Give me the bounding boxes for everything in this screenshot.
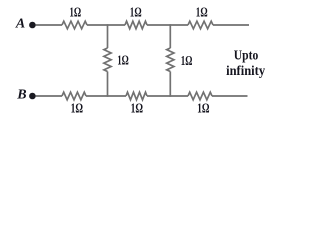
wire R6 continuing to infinity <box>212 95 248 97</box>
wire node D down to V2 <box>169 24 171 48</box>
svg-text:B: B <box>16 88 26 103</box>
node B terminal dot <box>29 93 36 100</box>
svg-text:Upto: Upto <box>234 48 259 63</box>
wire A to R1 <box>36 24 63 26</box>
svg-text:1Ω: 1Ω <box>130 6 142 21</box>
svg-text:A: A <box>15 17 25 32</box>
wire R1 to node C <box>87 24 125 26</box>
svg-text:1Ω: 1Ω <box>181 54 193 69</box>
svg-text:infinity: infinity <box>226 63 265 78</box>
resistor R6 1ohm bottom-right <box>188 92 212 100</box>
wire node C down to V1 <box>107 24 109 48</box>
node A terminal dot <box>29 22 36 29</box>
wire R3 continuing to infinity <box>213 24 249 26</box>
resistor R1 1ohm top-left <box>62 21 87 29</box>
svg-text:1Ω: 1Ω <box>131 102 143 117</box>
resistor V1 1ohm shunt left <box>104 48 111 72</box>
svg-text:1Ω: 1Ω <box>197 102 209 117</box>
resistor V2 1ohm shunt right <box>167 48 174 72</box>
resistor R3 1ohm top-right <box>188 21 213 29</box>
wire R5 to node F <box>147 95 188 97</box>
wire V2 down to node F <box>169 72 171 97</box>
wire R2 to node D <box>147 24 188 26</box>
resistor R5 1ohm bottom-middle <box>126 92 147 100</box>
svg-text:1Ω: 1Ω <box>69 6 81 21</box>
resistor R2 1ohm top-middle <box>125 21 147 29</box>
svg-text:1Ω: 1Ω <box>71 102 83 117</box>
wire V1 down to node E <box>107 72 109 97</box>
resistor R4 1ohm bottom-left <box>62 92 86 100</box>
svg-text:1Ω: 1Ω <box>117 54 129 69</box>
svg-text:1Ω: 1Ω <box>196 6 208 21</box>
wire R4 to node E <box>86 95 126 97</box>
wire B to R4 <box>36 95 63 97</box>
